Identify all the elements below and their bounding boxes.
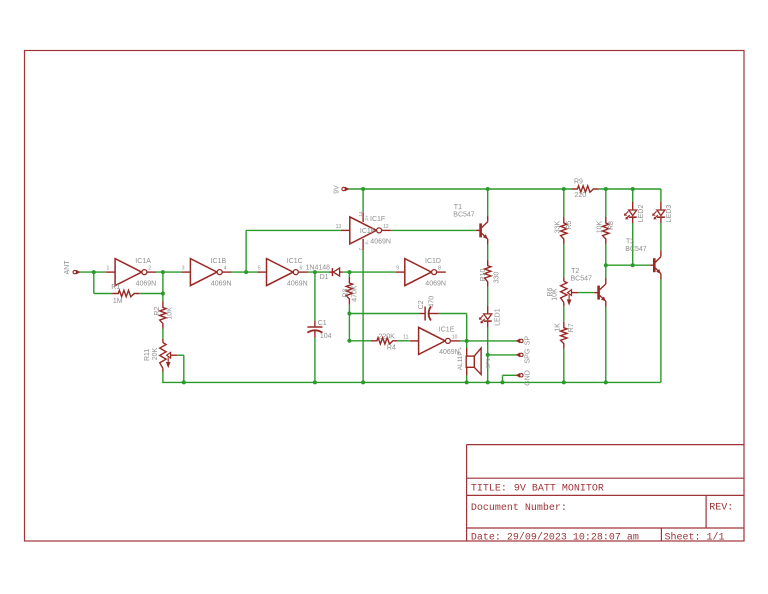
junction IC1B output node <box>244 270 248 274</box>
svg-text:AL11P: AL11P <box>457 351 464 370</box>
svg-text:R7: R7 <box>568 323 575 332</box>
wire C1 bottom to ground <box>314 338 316 383</box>
svg-text:+: + <box>458 347 464 350</box>
svg-text:R8: R8 <box>608 221 615 230</box>
svg-text:IC1B: IC1B <box>211 258 227 265</box>
svg-text:1K: 1K <box>555 323 562 332</box>
wire R5 to R6 <box>563 244 565 277</box>
svg-text:D1: D1 <box>320 274 329 281</box>
LED LED1 <box>479 306 501 327</box>
wire LED2 column top <box>632 189 634 202</box>
wire R7 to ground <box>563 349 565 383</box>
resistor R4 220K <box>371 333 398 351</box>
svg-text:220K: 220K <box>379 333 396 340</box>
svg-text:R5: R5 <box>566 221 573 230</box>
junction gnd LED1 <box>486 380 490 384</box>
inverter IC1B <box>181 258 231 287</box>
svg-text:4: 4 <box>224 266 227 272</box>
wire R6 to R7 <box>563 306 565 322</box>
wire IC1F power pin 7 to ground <box>362 250 364 382</box>
svg-text:10K: 10K <box>552 288 559 301</box>
svg-text:8: 8 <box>438 266 441 272</box>
junction gnd speaker <box>465 380 469 384</box>
junction 9V at R8 <box>604 187 608 191</box>
wire feedback node down <box>93 272 95 293</box>
junction 9V at IC1F <box>361 187 365 191</box>
svg-text:4069N: 4069N <box>425 280 446 287</box>
svg-text:10K: 10K <box>167 307 174 320</box>
junction R4 corner node <box>347 339 351 343</box>
wire IC1F power pin 14 <box>362 189 364 212</box>
wire node to C1 <box>314 272 316 321</box>
svg-text:330: 330 <box>493 272 500 284</box>
junction gnd R11 wiper <box>182 380 186 384</box>
resistor R1 1M <box>111 284 139 305</box>
junction gnd IC1F <box>361 380 365 384</box>
wire R4 row left <box>349 340 371 342</box>
svg-text:2: 2 <box>148 266 151 272</box>
resistor R7 1K <box>555 322 576 349</box>
wire ground rail <box>162 381 661 383</box>
junction SPG node <box>486 353 490 357</box>
svg-text:4069N: 4069N <box>287 280 308 287</box>
inverter IC1D <box>396 258 446 287</box>
inverter IC1F <box>336 211 391 251</box>
wire 9V power rail <box>348 188 661 190</box>
wire C2 row right to corner <box>439 314 467 341</box>
svg-text:TITLE:: TITLE: <box>471 484 507 495</box>
svg-text:IC1A: IC1A <box>135 258 151 265</box>
resistor R8 10K <box>597 217 615 244</box>
junction gnd C1 <box>313 380 317 384</box>
junction LED2 base node <box>631 263 635 267</box>
inverter IC1E <box>403 327 460 356</box>
pin SPG <box>516 349 532 364</box>
transistor T3 BC547 <box>625 239 661 280</box>
svg-text:9V BATT MONITOR: 9V BATT MONITOR <box>514 484 604 495</box>
pin 9V <box>334 185 350 194</box>
wire R3 bottom to C2 node <box>348 304 350 314</box>
svg-text:R2: R2 <box>154 307 161 316</box>
svg-text:SP1: SP1 <box>486 358 492 368</box>
capacitor C2 470 <box>418 296 439 321</box>
wire T1 emitter to R10 <box>487 245 489 260</box>
transistor T2 BC547 <box>571 268 606 307</box>
junction gnd T2 <box>604 380 608 384</box>
svg-text:Sheet: 1/1: Sheet: 1/1 <box>665 531 725 543</box>
wire R10 to LED1 <box>487 287 489 306</box>
svg-text:IC1E: IC1E <box>439 327 455 334</box>
svg-text:6: 6 <box>300 266 303 272</box>
svg-text:4069N: 4069N <box>370 239 391 246</box>
wire IC1F output to T1 base <box>391 229 476 231</box>
resistor R3 470K <box>343 277 359 304</box>
junction R1/R2 node <box>161 292 165 296</box>
svg-text:R1: R1 <box>111 284 120 291</box>
svg-text:SPG: SPG <box>525 349 532 364</box>
svg-text:LED1: LED1 <box>494 308 501 326</box>
wire C2 row left <box>349 313 419 315</box>
svg-text:Date: 29/09/2023 10:28:07 am: Date: 29/09/2023 10:28:07 am <box>471 531 639 543</box>
svg-text:14: 14 <box>358 211 363 217</box>
diode D1 1N4148 <box>306 265 343 281</box>
svg-text:IC1F: IC1F <box>360 228 375 235</box>
wire R1 row left <box>94 293 112 295</box>
svg-text:11: 11 <box>403 334 408 340</box>
title block frame <box>467 445 744 541</box>
svg-text:470K: 470K <box>352 285 359 302</box>
junction gnd pin <box>501 380 505 384</box>
svg-text:P-: P- <box>364 239 369 244</box>
svg-text:LED3: LED3 <box>666 205 673 223</box>
wire R5 top <box>563 189 565 217</box>
svg-text:R9: R9 <box>574 179 583 186</box>
rev label <box>709 503 733 514</box>
wire T1 collector to rail <box>487 189 489 216</box>
svg-text:20K: 20K <box>152 348 159 361</box>
svg-text:T1: T1 <box>454 204 462 211</box>
svg-text:GND: GND <box>525 370 532 386</box>
sheet text <box>665 531 725 543</box>
svg-text:R11: R11 <box>144 349 151 361</box>
wire IC1B output to IC1C input <box>231 271 257 273</box>
svg-text:1: 1 <box>107 266 110 272</box>
wire C2 node down to R4 row <box>348 314 350 341</box>
document number label <box>471 502 567 514</box>
wire R2 to R11 <box>162 329 164 339</box>
wire ANT to IC1A input <box>77 271 106 273</box>
inverter IC1C <box>258 258 308 287</box>
svg-text:BC547: BC547 <box>625 246 647 253</box>
wire IC1C output to D1 <box>308 271 330 273</box>
junction D1/R3 node <box>347 270 351 274</box>
junction IC1E output node <box>465 339 469 343</box>
junction T3 base node <box>604 263 608 267</box>
svg-text:R3: R3 <box>343 289 350 298</box>
LED LED2 <box>624 202 645 223</box>
junction 9V at LED2 <box>631 187 635 191</box>
wire LED3 to T3 collector <box>660 223 662 251</box>
junction 9V at T1 <box>486 187 490 191</box>
resistor R5 33K <box>555 217 573 244</box>
junction ANT node <box>92 270 96 274</box>
wire R6 wiper to T2 base <box>578 292 594 294</box>
drawing frame border <box>25 51 745 542</box>
wire T2 emitter to ground <box>605 307 607 383</box>
svg-text:9: 9 <box>396 266 399 272</box>
svg-text:C2: C2 <box>418 300 425 309</box>
svg-text:3: 3 <box>182 266 185 272</box>
junction 9V at R5 <box>562 187 566 191</box>
svg-text:BC547: BC547 <box>453 211 475 218</box>
wire R11 wiper <box>177 355 184 382</box>
wire SPG tap <box>488 354 518 356</box>
wire LED2 to base row <box>632 223 634 265</box>
wire node to R3 top <box>348 272 350 277</box>
svg-text:10: 10 <box>452 334 458 340</box>
svg-text:104: 104 <box>320 333 332 340</box>
wire IC1A output to IC1B input <box>156 271 181 273</box>
wire speaker column <box>466 341 468 383</box>
pin SP <box>516 336 532 346</box>
wire R11 bottom to ground rail <box>162 372 164 383</box>
svg-text:33K: 33K <box>555 221 562 234</box>
title text <box>471 484 604 495</box>
svg-text:470: 470 <box>428 296 435 308</box>
svg-text:1N4148: 1N4148 <box>306 265 331 272</box>
inverter IC1A <box>106 258 156 287</box>
svg-text:R10: R10 <box>480 268 487 281</box>
speaker SP1 AL11P <box>457 347 492 376</box>
svg-text:220: 220 <box>575 192 587 199</box>
svg-text:IC1F: IC1F <box>370 216 385 223</box>
wire GND stub <box>503 375 519 382</box>
capacitor C1 104 <box>307 320 331 340</box>
svg-text:1M: 1M <box>113 298 123 305</box>
pin ANT <box>64 260 80 275</box>
wire IC1E output to SP <box>460 340 519 342</box>
wire T3 base row <box>606 264 650 266</box>
svg-text:ANT: ANT <box>64 260 71 275</box>
svg-text:R4: R4 <box>387 345 396 352</box>
svg-text:SP: SP <box>525 336 532 346</box>
junction gnd R7 <box>562 380 566 384</box>
svg-text:REV:: REV: <box>709 503 733 514</box>
svg-text:BC547: BC547 <box>571 275 593 282</box>
wire R8 to T3 base node <box>605 244 607 265</box>
svg-text:T2: T2 <box>571 268 579 275</box>
wire LED1 to ground <box>487 326 489 382</box>
resistor R9 220 <box>571 179 598 199</box>
svg-text:9V: 9V <box>334 185 341 194</box>
svg-text:12: 12 <box>383 224 389 230</box>
svg-text:IC1D: IC1D <box>425 258 441 265</box>
svg-text:10K: 10K <box>597 221 604 234</box>
wire IC1A output node down <box>162 272 164 301</box>
svg-text:P+: P+ <box>364 214 369 220</box>
svg-text:C1: C1 <box>318 320 327 327</box>
transistor T1 BC547 <box>453 204 487 245</box>
svg-text:5: 5 <box>258 266 261 272</box>
svg-text:IC1C: IC1C <box>287 258 303 265</box>
trimpot R11 20K <box>144 339 177 372</box>
resistor R2 10K <box>154 302 174 329</box>
svg-text:13: 13 <box>336 224 342 230</box>
trimpot R6 10K <box>547 277 579 306</box>
svg-text:4069N: 4069N <box>136 280 157 287</box>
wire R1 row right <box>139 293 163 295</box>
svg-text:LED2: LED2 <box>638 205 645 223</box>
svg-text:T3: T3 <box>626 239 634 246</box>
junction R3/C2 node <box>347 312 351 316</box>
wire T3 emitter to ground <box>660 279 662 382</box>
wire node to T2 collector <box>605 265 607 278</box>
wire IC1B node up to IC1F <box>246 230 341 272</box>
junction IC1A output node <box>161 270 165 274</box>
LED LED3 <box>652 202 673 223</box>
svg-text:4069N: 4069N <box>211 280 232 287</box>
wire R4 to IC1E input <box>398 340 409 342</box>
junction C1 node <box>313 270 317 274</box>
wire D1 to node R3/IC1D <box>343 271 396 273</box>
pin GND <box>516 370 532 386</box>
wire R8 top <box>605 189 607 217</box>
svg-text:Document Number:: Document Number: <box>471 502 567 514</box>
date text <box>471 531 639 543</box>
resistor R10 330 <box>480 260 500 287</box>
wire LED3 column top <box>660 189 662 202</box>
